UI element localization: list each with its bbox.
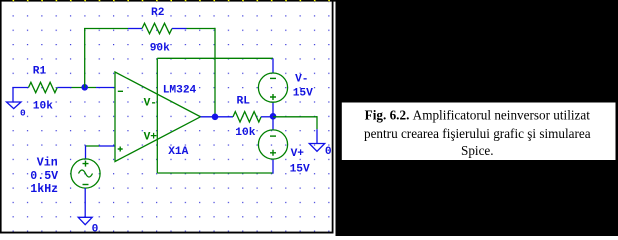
svg-text:V-: V- [295, 73, 308, 85]
wire feedback vertical up from node A [84, 29, 86, 88]
svg-text:Vin: Vin [37, 156, 58, 169]
svg-text:10k: 10k [33, 101, 53, 113]
svg-text:pentru crearea fişierului graf: pentru crearea fişierului grafic şi simu… [364, 126, 591, 141]
op-amp U1 triangle [115, 72, 201, 162]
yellow dots on top border [13, 0, 330, 1]
op-amp power rail vertical (through triangle) [156, 58, 158, 173]
svg-text:LM324: LM324 [163, 85, 197, 97]
node A junction dot [81, 84, 88, 91]
svg-text:0: 0 [325, 146, 332, 158]
svg-text:0: 0 [92, 223, 99, 235]
wire RL right lead [261, 116, 273, 118]
Vin sine wave [79, 170, 93, 177]
resistor R2 [142, 23, 172, 33]
svg-text:R1: R1 [33, 66, 47, 78]
wire bottom supply rail [157, 172, 273, 174]
svg-text:15V: 15V [290, 164, 310, 176]
svg-text:10k: 10k [235, 127, 255, 139]
V+ source plus marker [270, 150, 276, 156]
wire top supply rail [157, 57, 273, 59]
wire gnd to R1 [12, 87, 28, 89]
wire down to Vin source [85, 145, 87, 159]
svg-text:V+: V+ [144, 131, 158, 143]
wire plus input horizontal (green part) [86, 145, 100, 147]
V+ source minus marker [270, 135, 276, 137]
resistor R1 [29, 82, 58, 92]
V- source V2 circle [258, 73, 287, 102]
black panel right [336, 0, 618, 236]
ground GND right [309, 144, 324, 152]
resistor RL [233, 112, 261, 122]
wire R2 right lead [172, 28, 187, 30]
wire feedback top left [84, 28, 128, 30]
node C junction dot [270, 113, 277, 120]
svg-text:15V: 15V [293, 87, 313, 99]
wire op-amp output [201, 116, 234, 118]
svg-text:1kHz: 1kHz [30, 183, 58, 196]
V+ source V3 circle [258, 130, 287, 159]
svg-text:0.5V: 0.5V [30, 170, 58, 183]
V- source plus marker [270, 94, 276, 100]
wire R1 to node A [57, 87, 71, 89]
node B output junction dot [212, 114, 219, 121]
Vin plus marker [83, 161, 89, 167]
svg-text:X1A: X1A [168, 146, 188, 158]
svg-text:V-: V- [144, 97, 157, 109]
wire between supply sources [272, 102, 274, 130]
wire feedback top right [187, 28, 216, 30]
op-amp minus input marker [118, 90, 123, 92]
wire feedback vertical down to output node [214, 28, 216, 117]
ground GND left [7, 88, 22, 109]
wire R2 left lead [128, 28, 142, 30]
Vin source circle [71, 159, 100, 188]
wire plus input horizontal (blue part) [99, 145, 115, 147]
op-amp plus input marker [118, 147, 123, 152]
svg-text:Fig. 6.2. Amplificatorul neinv: Fig. 6.2. Amplificatorul neinversor util… [365, 108, 591, 123]
svg-text:RL: RL [237, 95, 251, 107]
V- source minus marker [270, 77, 276, 79]
wire down to right ground (green part) [316, 116, 318, 129]
schematic border frame [0, 0, 336, 2]
svg-text:Spice.: Spice. [461, 143, 494, 158]
Vin minus marker [83, 184, 89, 186]
ground GND bottom [78, 217, 92, 224]
caption white box [342, 103, 616, 161]
wire down to right ground (blue part) [316, 129, 318, 143]
wire (green) through node A [72, 87, 97, 89]
wire node A to op-amp minus input [96, 87, 115, 89]
wire stub to V- source top [272, 58, 274, 73]
svg-text:0: 0 [20, 107, 26, 118]
wire Vin to bottom ground [84, 188, 86, 217]
svg-text:R2: R2 [151, 7, 165, 19]
svg-text:V+: V+ [291, 148, 305, 160]
wire output to right [273, 116, 317, 118]
wire stub from V+ source bottom [272, 159, 274, 174]
svg-text:90k: 90k [150, 42, 170, 54]
